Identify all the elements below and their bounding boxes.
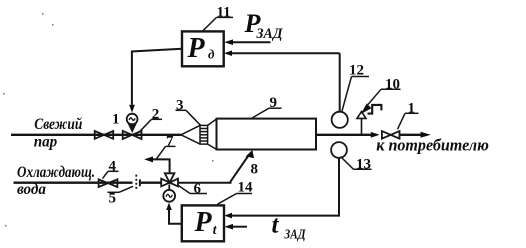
valve pos.1 (right, to consumer) — [382, 131, 400, 139]
svg-text:10: 10 — [385, 77, 400, 93]
svg-text:8: 8 — [251, 162, 259, 178]
sensor circle pos.13 (temperature pickup) — [331, 142, 347, 158]
regulator box Pt pos.14 — [182, 205, 224, 241]
flow arrowhead before valve — [371, 132, 380, 138]
svg-text:1: 1 — [408, 101, 416, 117]
injector nozzle pos.3 (cone + mixing grid + diffuser) — [181, 119, 217, 149]
vessel pos.9 (desuperheater body) — [217, 119, 317, 150]
injection water line pos.8 into vessel — [178, 156, 248, 183]
svg-text:Р: Р — [187, 33, 206, 64]
svg-text:2: 2 — [152, 107, 160, 123]
svg-text:пар: пар — [34, 133, 58, 150]
svg-text:к потребителю: к потребителю — [376, 136, 489, 155]
sensor circle pos.12 (pressure pickup) — [332, 112, 348, 128]
three-way mixing valve pos.6 — [161, 173, 178, 190]
svg-text:3: 3 — [176, 98, 184, 114]
pipe: steam outlet line — [316, 134, 372, 136]
svg-text:t: t — [272, 212, 280, 239]
actuator head circle pos.2 — [127, 114, 138, 125]
regulator box Pд pos.11 — [182, 31, 224, 66]
signal wire: horizontal into Pд box — [231, 52, 340, 54]
control valve (pos.1 actuator / pos.2 valve body) — [123, 124, 142, 139]
setpoint arrow into Pt — [232, 226, 247, 228]
svg-text:ЗАД: ЗАД — [256, 26, 284, 42]
actuator circle under valve 6 — [163, 190, 175, 202]
pipe: fresh steam line — [11, 134, 181, 136]
control wire: Pt output to mixing valve actuator — [169, 210, 182, 224]
orifice device pos.5 (dotted bar + flange bar) — [135, 175, 137, 190]
setpoint arrow into Pд — [232, 41, 271, 43]
valve pos.4 (manual, cooling water) — [99, 179, 118, 187]
svg-text:1: 1 — [112, 112, 120, 128]
signal wire: circle 12 up to Pд feedback — [339, 53, 341, 111]
valve (manual) on steam line — [95, 131, 114, 139]
control wire: Pд output to valve actuator — [132, 49, 182, 105]
pipe: water line between orifice and mixing valve — [141, 181, 161, 183]
signal wire: circle 13 down and into Pt — [231, 158, 339, 216]
svg-text:Свежий: Свежий — [34, 116, 82, 133]
svg-text:Охлаждающ.: Охлаждающ. — [17, 164, 95, 181]
bypass signal line pos.7 with left arrow — [147, 159, 170, 173]
end arrowhead to consumer — [421, 132, 431, 138]
svg-text:4: 4 — [109, 159, 117, 175]
svg-text:вода: вода — [17, 181, 46, 198]
vent/sample device pos.10 (stub + triangle + step) — [357, 105, 381, 135]
pipe: cooling water line — [14, 181, 133, 183]
svg-text:Р: Р — [194, 207, 213, 238]
scan specks — [3, 13, 214, 162]
svg-text:ЗАД: ЗАД — [284, 227, 306, 242]
svg-text:13: 13 — [356, 157, 371, 173]
svg-text:д: д — [208, 47, 215, 62]
